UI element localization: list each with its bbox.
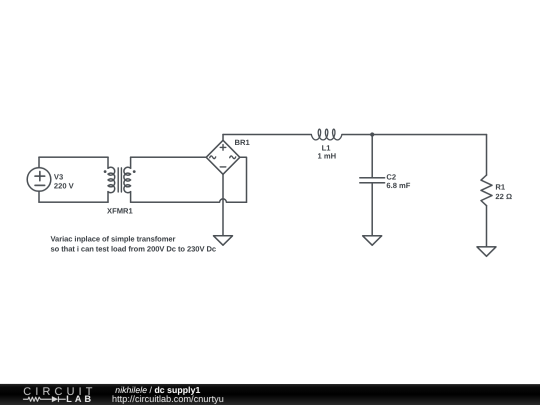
V3 minus sign [35,184,45,186]
transformer core line 1 [117,168,119,192]
wire R1 bottom [485,206,487,247]
wire bridge right vertex down to bottom rail [240,157,247,202]
svg-text:Variac inplace of simple trans: Variac inplace of simple transfomer [50,234,175,243]
BR1 plus mark [220,145,226,151]
V3 plus sign [35,172,45,181]
wire primary top stub [107,157,109,168]
footer logo resistor zigzag [23,397,52,401]
voltage source V3 [27,168,51,192]
footer logo diode cathode bar [57,396,59,402]
BR1 right AC tilde [230,156,236,159]
capacitor C2 bottom plate [360,182,385,184]
wire top rail bridge to inductor [223,133,311,135]
wire V3 top stub [38,157,40,167]
bridge rectifier BR1 diamond [206,140,240,174]
transformer primary polarity dot [104,170,107,173]
wire top rail inductor to R1 [342,134,487,136]
svg-text:LAB: LAB [66,394,94,404]
wire secondary top rail to bridge [131,156,207,158]
svg-text:22 Ω: 22 Ω [495,192,512,201]
capacitor C2 top plate [360,177,385,179]
footer logo wire after diode [58,398,65,400]
wire secondary top stub [130,157,132,168]
ground symbol below C2 [363,236,382,245]
BR1 left AC tilde [210,156,216,159]
transformer core line 2 [120,168,122,192]
wire bridge top stub [222,134,224,140]
wire bridge bottom vertex to ground [222,174,224,236]
footer bar [0,384,540,405]
ground symbol below R1 [477,247,496,256]
wire primary bottom stub [107,192,109,203]
BR1 minus mark [220,166,226,168]
svg-text:220 V: 220 V [54,181,75,190]
wire top left rail [39,156,108,158]
svg-text:BR1: BR1 [235,138,251,147]
svg-text:1 mH: 1 mH [318,152,337,161]
wire bottom left rail [39,201,108,203]
svg-text:V3: V3 [54,173,63,182]
wire R1 top [486,135,488,176]
wire secondary bottom stub [130,192,132,203]
svg-text:XFMR1: XFMR1 [107,206,134,215]
junction node dot [370,132,374,136]
transformer XFMR1 secondary winding [124,167,131,193]
wire C2 bottom [371,183,373,236]
wire secondary bottom rail with hop over ground wire [131,199,247,202]
svg-text:R1: R1 [495,182,505,191]
svg-text:http://circuitlab.com/cnurtyu: http://circuitlab.com/cnurtyu [112,394,224,404]
wire C2 top [371,135,373,178]
footer logo diode triangle [52,396,58,402]
wire V3 bottom stub [38,191,40,202]
inductor L1 [311,129,342,140]
ground symbol below BR1 [213,236,232,245]
svg-text:so that i can test load from 2: so that i can test load from 200V Dc to … [50,244,216,253]
svg-text:6.8 mF: 6.8 mF [386,181,410,190]
resistor R1 zigzag [481,175,492,206]
transformer secondary polarity dot [133,170,136,173]
transformer XFMR1 primary winding [108,167,115,193]
